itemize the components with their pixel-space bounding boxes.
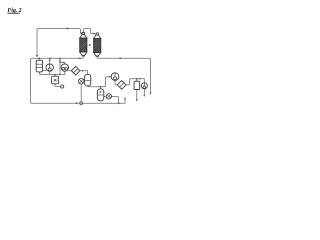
- adsorber column 34: [94, 33, 101, 57]
- arrow up on riser pole: [59, 59, 61, 61]
- valve C6 circle with X: [106, 94, 111, 99]
- wire column1 bottom to left recycle: [31, 57, 126, 104]
- wire top loop: [37, 29, 82, 57]
- wire pump C1 stems: [49, 58, 51, 74]
- wire S2 to valve C6: [104, 95, 106, 97]
- junction at pole branch: [59, 62, 61, 64]
- arrow up riser at x125: [124, 97, 126, 99]
- valve C5 circle with X: [78, 78, 84, 84]
- junction at bottom header right: [118, 102, 120, 104]
- compressor C3: [111, 73, 119, 81]
- valve D2 diamond: [117, 81, 126, 90]
- wire vessel V3 bottom outlet: [136, 90, 138, 101]
- junction at pole top: [59, 58, 61, 60]
- wire blower C2 bottom stem: [64, 71, 66, 74]
- column 32 packing hatch: [80, 38, 87, 52]
- wire vessel V1 top nozzle: [38, 58, 40, 60]
- wire bridge column1 to column2: [83, 29, 95, 34]
- junction at drain stem: [54, 74, 56, 76]
- junction at C1 riser: [49, 58, 51, 60]
- separator vessel V1: [36, 60, 42, 72]
- wire V1 to pump C1: [43, 70, 46, 72]
- arrow down V3 outlet: [136, 99, 138, 101]
- junction at V3 tee: [136, 78, 138, 80]
- wire valve C6 to bottom header: [112, 96, 119, 103]
- junction at S2 top branch: [100, 86, 102, 88]
- wire vessel V1 bottom to header: [39, 72, 65, 75]
- arrow down right wire end: [150, 93, 152, 95]
- arrow into column2 nozzle: [94, 32, 96, 34]
- wire tee into vessel V3: [136, 79, 138, 81]
- arrow on wire D1 to S1: [82, 70, 84, 72]
- node label dot between columns: [89, 44, 91, 45]
- arrow left on bottom header: [75, 102, 77, 104]
- wire branch down to S2 top: [99, 87, 101, 89]
- wire S1 left to valve C5: [83, 80, 86, 82]
- arrowheads: [36, 27, 152, 104]
- figure label Fig. 2: [7, 8, 21, 14]
- arrow up on pump C1 top stem: [49, 59, 51, 61]
- pump C4: [141, 83, 147, 89]
- column 34 packing hatch: [94, 39, 101, 53]
- separator S1 capsule: [85, 74, 91, 86]
- adsorber column 32: [80, 32, 87, 56]
- arrow into column1 nozzle: [81, 32, 83, 34]
- valve D1 diamond: [71, 66, 80, 75]
- wire S1 bottom header to S2 and compressor C3: [88, 77, 111, 87]
- wire pole to blower C2: [60, 62, 65, 64]
- wire pump C4 bottom outlet: [143, 89, 145, 96]
- wire compressor C3 down to valve D2: [115, 80, 117, 85]
- wire column2 bottom to right side: [97, 57, 150, 94]
- pump C1: [46, 64, 53, 71]
- wire funnel box stem: [54, 75, 56, 77]
- arrow on long wire right: [120, 57, 122, 59]
- arrow down C4 outlet: [143, 95, 145, 97]
- small circle at drain outlet: [61, 85, 64, 88]
- wire valve C5 down to bottom header: [80, 84, 82, 102]
- blower C2: [61, 64, 68, 71]
- arrow down on left loop wire: [36, 55, 38, 57]
- separator S2 capsule: [97, 89, 104, 101]
- wire valve D1 to separator S1: [80, 71, 88, 75]
- arrow on recycle wire pointing left: [78, 57, 80, 59]
- junction at V1 top nozzle: [39, 58, 41, 60]
- arrow on top wire: [67, 27, 69, 29]
- junction circle on bottom header: [80, 102, 83, 105]
- arrow into blower C2: [62, 61, 64, 63]
- arrow into compressor C3: [109, 76, 111, 78]
- wire riser pole: [59, 58, 61, 74]
- drain box with X: [52, 76, 59, 84]
- junction at pole bottom: [59, 74, 61, 76]
- wire funnel box outlet to small circle: [55, 84, 61, 87]
- wire blower C2 to valve D1: [69, 70, 72, 72]
- vessel V3: [134, 81, 140, 89]
- wire valve D2 to right units: [126, 79, 144, 85]
- arrow on wire to V3/C4: [139, 78, 141, 80]
